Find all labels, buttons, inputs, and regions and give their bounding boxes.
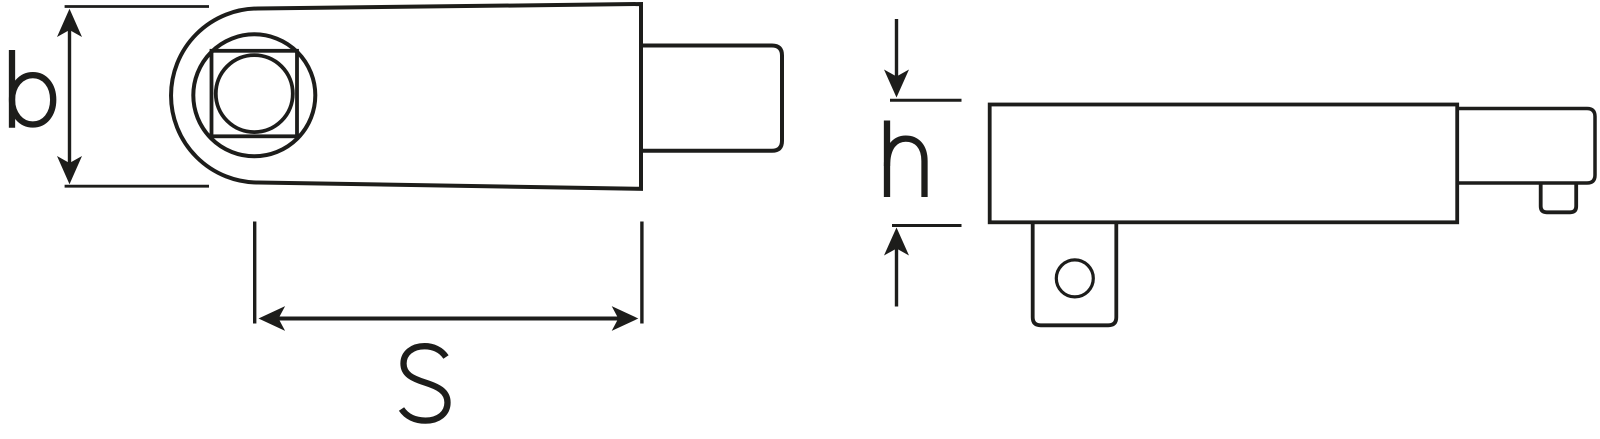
dimension b: dimension line	[68, 28, 71, 164]
insert-tool body (top view)	[171, 4, 641, 189]
dimension h: lower arrow line	[895, 248, 898, 307]
side view: head extension	[1457, 109, 1595, 184]
dimension h: bottom extension line	[892, 224, 962, 227]
dimension h: upper arrow line	[895, 19, 898, 78]
side view: main body rectangle	[990, 105, 1457, 223]
dimension b: top arrowhead	[57, 9, 82, 37]
dimension S: left arrowhead	[259, 306, 286, 331]
label b	[12, 50, 53, 128]
side view: square drive tang	[1541, 183, 1577, 212]
label h	[887, 121, 925, 198]
dimension b: bottom arrowhead	[57, 156, 82, 184]
dimension S: right arrowhead	[612, 306, 639, 331]
dimension h: lower arrowhead	[884, 228, 909, 256]
side view: pin hole	[1056, 260, 1093, 297]
square drive opening	[212, 51, 298, 137]
dimension h: upper arrowhead	[884, 70, 909, 98]
drive tang (top view)	[641, 46, 782, 151]
dimension S: left extension line	[253, 222, 256, 324]
dimension b: bottom extension line	[65, 185, 209, 188]
dimension S: dimension line	[276, 317, 621, 321]
label S	[402, 346, 448, 420]
dimension h: top extension line	[890, 99, 962, 102]
dimension b: top extension line	[65, 5, 209, 8]
boss outer circle	[193, 34, 315, 156]
dimension S: right extension line	[640, 222, 643, 324]
inner circle	[216, 55, 293, 132]
side view: locking tab	[1033, 222, 1117, 325]
